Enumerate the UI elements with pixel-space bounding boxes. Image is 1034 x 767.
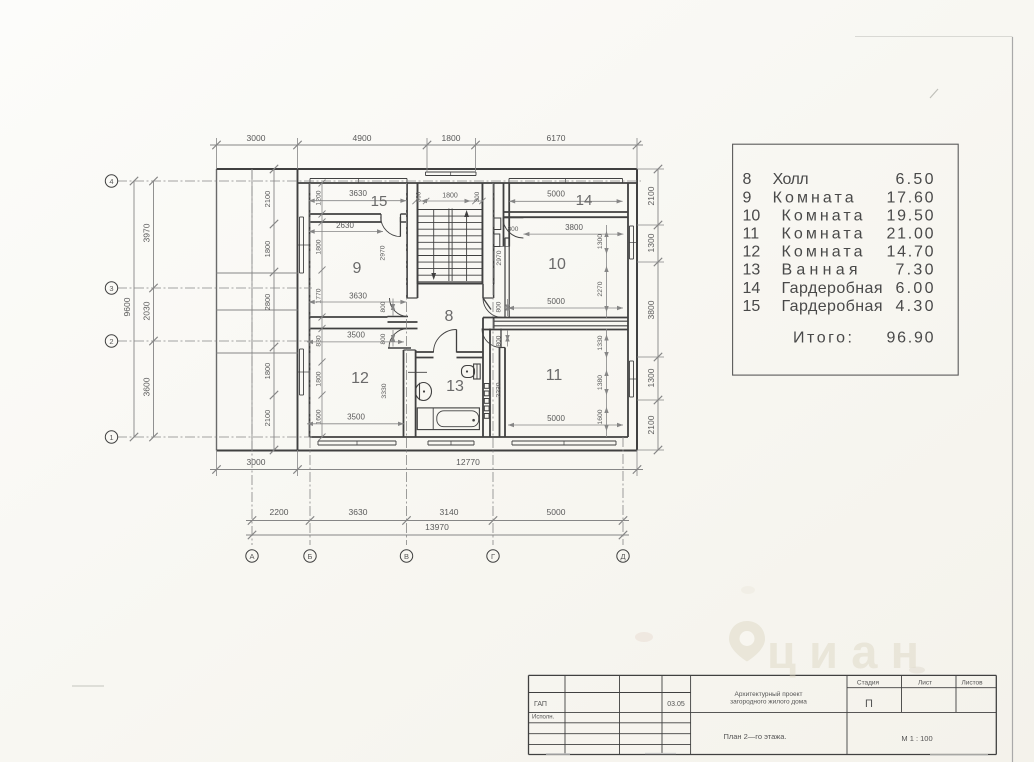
svg-text:Стадия: Стадия <box>857 680 880 687</box>
wire top right speck <box>930 89 938 98</box>
svg-text:3630: 3630 <box>349 189 367 198</box>
node top dim tick <box>633 141 641 149</box>
svg-text:3500: 3500 <box>347 331 365 340</box>
window room 14 top <box>509 178 623 180</box>
svg-text:3: 3 <box>109 284 113 293</box>
svg-text:4.30: 4.30 <box>896 298 934 315</box>
svg-text:Листов: Листов <box>961 680 983 687</box>
svg-text:2100: 2100 <box>263 191 272 208</box>
node interior chain tick <box>319 434 326 441</box>
window room 10 right <box>629 226 631 259</box>
wall bath top left segment <box>416 351 434 353</box>
door room 9 <box>388 316 409 318</box>
svg-text:Гардеробная: Гардеробная <box>782 298 883 315</box>
toilet <box>462 366 475 378</box>
wire bottom window mullions <box>356 441 358 445</box>
svg-text:1800: 1800 <box>316 239 323 254</box>
wall D between rooms 9 and 12 left part <box>310 316 388 318</box>
node bottom dim2 tick <box>489 516 497 524</box>
node axis bubble Д <box>617 550 629 562</box>
svg-text:П: П <box>865 698 873 710</box>
svg-text:1800: 1800 <box>442 133 461 143</box>
node axis bubble Г <box>487 550 499 562</box>
wire axis line Д <box>622 437 624 545</box>
window bath bottom <box>428 440 474 442</box>
svg-text:2100: 2100 <box>646 415 656 434</box>
wire right window mullions <box>629 242 636 244</box>
svg-text:2200: 2200 <box>270 507 289 517</box>
node interior chain tick <box>319 211 326 218</box>
node left dim2 tick <box>149 177 157 185</box>
svg-text:5000: 5000 <box>547 414 565 423</box>
wall E stairs right <box>481 183 483 284</box>
svg-text:3630: 3630 <box>349 292 367 301</box>
svg-text:6170: 6170 <box>547 133 566 143</box>
svg-text:Д: Д <box>620 552 625 561</box>
svg-text:1600: 1600 <box>316 409 323 424</box>
svg-text:13: 13 <box>446 378 464 395</box>
title block frame <box>529 674 997 676</box>
svg-text:1800: 1800 <box>263 363 272 380</box>
door room 15 <box>399 217 401 237</box>
svg-text:800: 800 <box>508 226 519 233</box>
wire wall C caps <box>309 214 311 222</box>
node terrace chain tick <box>270 391 278 399</box>
wire main left wall outer face <box>297 169 299 450</box>
node right dim tick <box>654 165 662 173</box>
node right dim tick <box>654 221 662 229</box>
svg-text:Б: Б <box>308 552 313 561</box>
wire left dim line 1 <box>133 181 135 437</box>
svg-text:М 1 : 100: М 1 : 100 <box>901 734 932 743</box>
node top dim tick <box>293 141 301 149</box>
stair down arrow <box>433 210 435 278</box>
wire axis line 1 <box>117 436 312 438</box>
wire axis line 4 <box>117 180 641 182</box>
svg-text:12: 12 <box>351 370 369 387</box>
wire ext bottom 1 <box>216 450 218 476</box>
node bottom dim3 ticks <box>248 531 256 539</box>
node axis bubble В <box>400 550 412 562</box>
wire dim room11 bottom <box>508 424 623 426</box>
svg-text:300: 300 <box>416 191 423 202</box>
wire right ext 5 <box>637 399 664 401</box>
svg-text:14.70: 14.70 <box>887 244 934 261</box>
wire dim room12 bottom <box>307 423 404 425</box>
door room 11 <box>500 329 502 348</box>
node axis bubble 4 <box>105 175 117 187</box>
wall hall right stub <box>482 284 484 298</box>
stair up arrow <box>466 212 468 281</box>
node bottom dim2 tick <box>402 516 410 524</box>
wire ext top 3 <box>426 138 428 172</box>
watermark cian <box>729 621 928 678</box>
svg-text:2630: 2630 <box>336 221 354 230</box>
svg-text:96.90: 96.90 <box>887 330 934 347</box>
wire page right edge line <box>1012 37 1014 762</box>
tile squares on bath wall <box>484 384 489 389</box>
svg-text:7.30: 7.30 <box>896 262 934 279</box>
node interior chain tick <box>319 180 326 187</box>
svg-text:2970: 2970 <box>496 250 503 265</box>
node left dim1 ticks <box>130 177 138 185</box>
svg-text:План 2—го этажа.: План 2—го этажа. <box>723 732 786 741</box>
node right dim tick <box>654 258 662 266</box>
wire dim room15 <box>309 200 407 202</box>
svg-text:2230: 2230 <box>496 382 503 397</box>
svg-text:1800: 1800 <box>263 241 272 258</box>
node terrace chain tick <box>270 220 278 228</box>
svg-text:9: 9 <box>743 189 752 206</box>
svg-text:8: 8 <box>743 171 752 188</box>
wire right ext 6 <box>637 449 664 451</box>
window room 11 bottom <box>512 440 616 442</box>
svg-text:10: 10 <box>548 256 566 273</box>
svg-text:12: 12 <box>743 244 761 261</box>
door room 10 <box>503 218 524 239</box>
svg-text:Исполн.: Исполн. <box>532 715 555 721</box>
wire right ext 2 <box>637 224 664 226</box>
svg-text:4: 4 <box>109 177 113 186</box>
title block right grid <box>846 675 848 754</box>
wire ext bottom 2 <box>297 450 299 476</box>
wall hall right junction <box>482 318 484 329</box>
svg-text:1600: 1600 <box>597 409 604 424</box>
svg-text:830: 830 <box>316 335 323 347</box>
svg-text:3630: 3630 <box>349 507 368 517</box>
window room 12 bottom <box>318 440 396 442</box>
wire door11 dim <box>507 330 509 347</box>
svg-text:5000: 5000 <box>547 190 565 199</box>
node bottom dim2 tick <box>619 516 627 524</box>
svg-text:8: 8 <box>445 308 454 325</box>
wire right ext 1 <box>637 168 664 170</box>
wire pale smudges <box>635 632 653 642</box>
node bottom dim tick <box>633 465 641 473</box>
wire ext bottom 3 <box>636 450 638 476</box>
svg-text:А: А <box>249 552 254 561</box>
svg-text:Архитектурный проект: Архитектурный проект <box>735 690 803 698</box>
svg-text:14: 14 <box>576 192 593 209</box>
svg-text:2030: 2030 <box>142 301 152 320</box>
node top dim tick <box>423 141 431 149</box>
vent shaft box 1 <box>494 218 501 230</box>
svg-text:Г: Г <box>491 552 495 561</box>
svg-text:5000: 5000 <box>547 507 566 517</box>
wire dim room10 bottom <box>508 307 623 309</box>
wire left window mullions <box>298 244 310 246</box>
wire terrace left edge <box>216 169 218 451</box>
svg-text:Холл: Холл <box>773 171 809 188</box>
wall B room 12 right / bath left <box>403 350 405 437</box>
node interior chain tick <box>319 314 326 321</box>
svg-text:Итого:: Итого: <box>793 330 852 347</box>
svg-text:1: 1 <box>109 433 113 442</box>
stair center stringer <box>448 209 450 282</box>
wire right wall inner face <box>627 183 629 437</box>
svg-text:6.50: 6.50 <box>896 171 934 188</box>
svg-text:800: 800 <box>496 301 503 312</box>
door room 12 <box>388 347 411 349</box>
svg-text:14: 14 <box>743 280 761 297</box>
node axis bubble А <box>246 550 258 562</box>
wire axis line В <box>406 183 408 545</box>
node left dim2 tick <box>149 284 157 292</box>
node axis bubble 1 <box>105 431 117 443</box>
wire top wall inner face <box>298 182 638 184</box>
svg-text:2: 2 <box>109 337 113 346</box>
wire right dim line <box>657 169 659 450</box>
wire ext top 2 <box>297 138 299 169</box>
wire dim room12 top <box>307 341 404 343</box>
svg-text:03.05: 03.05 <box>667 701 685 708</box>
node left dim2 tick <box>149 433 157 441</box>
svg-text:3970: 3970 <box>142 223 152 242</box>
wire bottom smudges <box>72 685 104 687</box>
wire interior chain room10 <box>606 225 608 318</box>
wire axis line Б <box>309 183 311 545</box>
svg-text:загородного жилого дома: загородного жилого дома <box>730 699 807 706</box>
wire room 11 left wall cap <box>500 347 506 349</box>
wire terrace line 1 <box>217 272 298 274</box>
node interior chain tick <box>319 267 326 274</box>
wire dim room9 top <box>309 231 383 233</box>
svg-text:2970: 2970 <box>380 245 387 260</box>
wall A hall-left upper <box>406 183 408 298</box>
node axis bubble 3 <box>105 282 117 294</box>
wire wall C right stub <box>401 213 408 215</box>
svg-text:9600: 9600 <box>122 297 132 316</box>
wall C between rooms 15 and 9 <box>310 213 382 215</box>
wire closet bottom <box>494 246 510 248</box>
wire interior chain room11 <box>606 329 608 438</box>
node right dim tick <box>654 353 662 361</box>
svg-text:11: 11 <box>743 226 760 243</box>
svg-text:Комната: Комната <box>782 244 863 261</box>
vent shaft box 2 <box>494 234 500 247</box>
door hall to corridor <box>483 298 491 310</box>
node terrace chain tick <box>270 446 278 454</box>
svg-text:1800: 1800 <box>442 193 458 200</box>
node axis bubble 2 <box>105 335 117 347</box>
svg-text:1300: 1300 <box>646 368 656 387</box>
wall bath right <box>482 329 484 438</box>
wire terrace line 3 <box>217 352 298 354</box>
wall D right part <box>388 321 418 323</box>
wall closet right upper <box>503 183 505 247</box>
wire bottom wall inner face <box>310 436 629 438</box>
svg-text:Комната: Комната <box>773 189 854 206</box>
wire room10 wall cap <box>505 237 510 239</box>
svg-text:Гардеробная: Гардеробная <box>782 280 883 297</box>
wire outer wall bottom <box>217 450 638 452</box>
svg-text:Лист: Лист <box>918 680 932 687</box>
node axis bubble Б <box>304 550 316 562</box>
svg-text:5000: 5000 <box>547 297 565 306</box>
wire ext top 4 <box>475 138 477 172</box>
node top dim tick <box>212 141 220 149</box>
wire right ext 3 <box>637 261 664 263</box>
svg-text:2100: 2100 <box>263 410 272 427</box>
sink <box>416 383 432 401</box>
svg-text:21.00: 21.00 <box>887 226 934 243</box>
wire ext top 5 <box>636 138 638 169</box>
wire axis line 3 <box>117 287 312 289</box>
wire dim stair top <box>416 200 483 202</box>
node right dim tick <box>654 446 662 454</box>
svg-text:2800: 2800 <box>263 294 272 311</box>
wire door12 dim <box>392 330 394 347</box>
stair treads <box>418 209 483 211</box>
svg-text:15: 15 <box>743 298 761 315</box>
wire wall A end cap <box>407 297 418 299</box>
svg-text:2100: 2100 <box>646 186 656 205</box>
svg-text:3500: 3500 <box>347 413 365 422</box>
svg-text:15: 15 <box>371 193 388 210</box>
wire ext top 1 <box>216 138 218 169</box>
svg-text:11: 11 <box>546 367 563 384</box>
node bottom dim tick <box>293 465 301 473</box>
svg-text:Комната: Комната <box>782 226 863 243</box>
wire axis line 2 <box>117 340 312 342</box>
stair landing edge <box>418 283 483 285</box>
svg-text:3000: 3000 <box>247 133 266 143</box>
svg-text:300: 300 <box>474 191 481 202</box>
wire wall B top cap <box>404 349 416 351</box>
svg-text:10: 10 <box>743 207 761 224</box>
wire terrace rail line <box>251 169 253 450</box>
node right dim tick <box>654 396 662 404</box>
node terrace chain tick <box>270 165 278 173</box>
svg-text:1380: 1380 <box>597 375 604 390</box>
svg-text:1300: 1300 <box>646 233 656 252</box>
wire door corridor dim <box>507 299 509 316</box>
wire outer wall top <box>217 168 638 170</box>
svg-text:ГАП: ГАП <box>534 701 547 708</box>
node interior chain tick <box>319 392 326 399</box>
wall bath top right segment <box>457 351 484 353</box>
node interior chain tick <box>319 219 326 226</box>
svg-text:17.60: 17.60 <box>887 189 934 206</box>
svg-text:13970: 13970 <box>425 522 449 532</box>
svg-text:13: 13 <box>743 262 761 279</box>
node bottom dim2 tick <box>248 516 256 524</box>
svg-text:1800: 1800 <box>316 371 323 386</box>
svg-text:1300: 1300 <box>597 234 604 249</box>
wall between 14 and 10 <box>503 211 628 213</box>
node interior chain tick <box>319 325 326 332</box>
svg-text:800: 800 <box>380 333 387 344</box>
window room 11 right <box>629 361 631 397</box>
wire bottom dim line 3 <box>246 534 629 536</box>
svg-text:В: В <box>404 552 409 561</box>
wire dim room14 <box>509 200 622 202</box>
wire door9 dim <box>392 299 394 316</box>
window room 15 top <box>310 178 407 180</box>
door bath <box>456 330 458 353</box>
wall between 10 and 11 <box>483 317 628 319</box>
stair shaft side walls <box>417 183 419 284</box>
svg-text:1200: 1200 <box>316 190 323 205</box>
svg-text:Комната: Комната <box>782 207 863 224</box>
node interior chain tick <box>319 359 326 366</box>
svg-text:1330: 1330 <box>597 335 604 350</box>
wire bottom dim line 1 <box>210 469 643 471</box>
wire main left wall inner face <box>309 183 311 437</box>
wire bottom dim line 2 <box>246 520 629 522</box>
wire terrace line 2 <box>217 309 298 311</box>
svg-text:800: 800 <box>380 301 387 312</box>
wire right ext 4 <box>637 356 664 358</box>
wire left dim line 2 <box>153 181 155 437</box>
wire dim room10 top <box>523 233 623 235</box>
svg-text:4900: 4900 <box>353 133 372 143</box>
wire dim room9 bottom <box>309 301 407 303</box>
title block left grid <box>564 675 566 754</box>
svg-text:2270: 2270 <box>597 281 604 296</box>
wire axis line А <box>251 169 253 545</box>
svg-text:3800: 3800 <box>646 300 656 319</box>
wire top dimension line <box>210 144 643 146</box>
svg-text:12770: 12770 <box>456 457 480 467</box>
window room 9 left <box>299 217 301 273</box>
node bottom dim tick <box>212 465 220 473</box>
wire axis line Г <box>492 183 494 545</box>
node bottom dim2 tick <box>306 516 314 524</box>
wire wall 10-11 inner faces <box>494 320 628 322</box>
svg-text:9: 9 <box>353 260 362 277</box>
window room 12 left <box>299 349 301 395</box>
node top dim tick <box>471 141 479 149</box>
wire interior chain left <box>321 183 323 437</box>
legend box <box>733 144 959 375</box>
wire page top faint line <box>855 36 1013 38</box>
wire outer wall right <box>636 169 638 451</box>
svg-text:19.50: 19.50 <box>887 207 934 224</box>
svg-text:1770: 1770 <box>316 288 323 303</box>
node terrace chain tick <box>270 343 278 351</box>
svg-text:3000: 3000 <box>247 457 266 467</box>
node left dim2 tick <box>149 337 157 345</box>
svg-text:3600: 3600 <box>142 377 152 396</box>
svg-text:3140: 3140 <box>440 507 459 517</box>
wall room 11 left <box>499 348 501 438</box>
window stair top <box>426 171 477 173</box>
svg-text:3800: 3800 <box>565 223 583 232</box>
node terrace chain tick <box>270 268 278 276</box>
svg-text:6.00: 6.00 <box>896 280 934 297</box>
wire top window mullions <box>358 179 360 184</box>
wire terrace dim chain <box>273 169 275 450</box>
svg-text:3330: 3330 <box>381 383 388 398</box>
bathtub <box>417 408 479 430</box>
svg-text:800: 800 <box>496 335 503 346</box>
wall room 10 left lower <box>504 238 506 318</box>
